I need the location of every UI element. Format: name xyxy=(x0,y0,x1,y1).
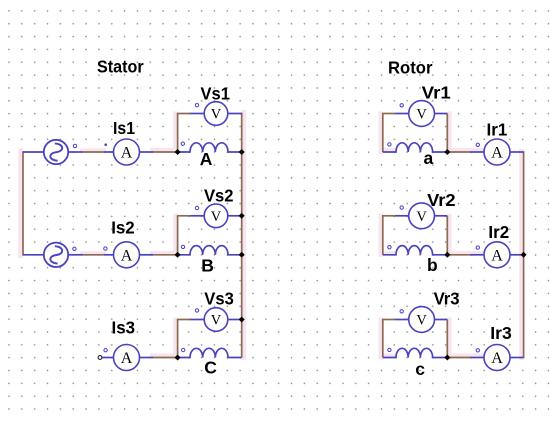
svg-text:V: V xyxy=(416,313,427,329)
svg-text:Is1: Is1 xyxy=(113,118,135,138)
svg-text:A: A xyxy=(491,247,503,264)
svg-text:Is3: Is3 xyxy=(112,318,136,338)
svg-text:A: A xyxy=(121,247,133,264)
svg-text:V: V xyxy=(416,209,427,225)
svg-text:V: V xyxy=(211,209,222,225)
svg-text:Ir2: Ir2 xyxy=(488,222,509,242)
svg-text:Rotor: Rotor xyxy=(388,58,433,78)
svg-text:V: V xyxy=(211,107,222,123)
svg-text:C: C xyxy=(204,358,217,378)
svg-text:A: A xyxy=(491,145,503,162)
svg-text:V: V xyxy=(211,313,222,329)
svg-text:Vr1: Vr1 xyxy=(422,83,451,103)
svg-text:Vs3: Vs3 xyxy=(204,289,234,309)
svg-text:A: A xyxy=(121,350,133,367)
svg-text:Vr3: Vr3 xyxy=(434,288,460,308)
svg-text:Vs1: Vs1 xyxy=(201,84,231,104)
svg-text:b: b xyxy=(427,255,438,275)
svg-text:Is2: Is2 xyxy=(111,218,135,238)
svg-text:a: a xyxy=(424,148,434,168)
svg-text:Stator: Stator xyxy=(97,57,144,77)
svg-text:V: V xyxy=(416,107,427,123)
svg-text:c: c xyxy=(415,359,425,379)
svg-text:A: A xyxy=(200,149,213,169)
svg-text:A: A xyxy=(491,350,503,367)
svg-text:Vs2: Vs2 xyxy=(204,186,234,206)
svg-text:Ir1: Ir1 xyxy=(487,120,508,140)
svg-text:Vr2: Vr2 xyxy=(427,190,456,210)
svg-text:A: A xyxy=(121,145,133,162)
svg-text:Ir3: Ir3 xyxy=(490,323,512,343)
svg-text:B: B xyxy=(201,256,214,276)
